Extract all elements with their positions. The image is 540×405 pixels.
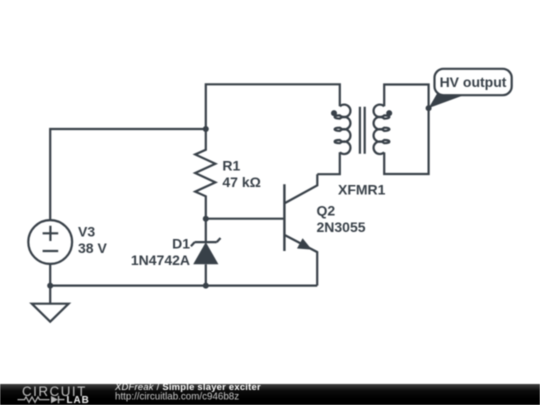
resistor R1 <box>195 129 215 219</box>
svg-text:HV output: HV output <box>440 74 507 90</box>
node: zener bottom junction <box>203 283 209 289</box>
transformer XFMR1 core <box>360 107 365 154</box>
svg-text:R1: R1 <box>222 157 240 173</box>
svg-text:Q2: Q2 <box>317 202 336 218</box>
footer credit text <box>114 381 261 403</box>
svg-text:http://circuitlab.com/c946b8z: http://circuitlab.com/c946b8z <box>115 392 239 403</box>
transformer XFMR1 primary winding <box>335 105 351 154</box>
svg-text:D1: D1 <box>172 236 190 252</box>
svg-text:V3: V3 <box>78 224 95 240</box>
wire: vertical riser and top rail to transformer primary <box>206 84 340 129</box>
logo CircuitLab <box>18 384 90 405</box>
svg-text:2N3055: 2N3055 <box>317 219 366 235</box>
ground <box>32 286 69 322</box>
transformer XFMR1 phase dot primary <box>331 110 337 116</box>
svg-text:XFMR1: XFMR1 <box>338 182 386 198</box>
zener diode D1 <box>191 219 221 286</box>
wire: left rail from V3 top to top-left corner <box>50 129 205 220</box>
node: HV output tap <box>426 105 432 111</box>
svg-text:XDFreak / Simple slayer excite: XDFreak / Simple slayer exciter <box>114 381 261 392</box>
voltage source V3 <box>28 220 72 286</box>
wire: base wire to Q2 <box>206 218 284 220</box>
callout HV output <box>429 69 512 108</box>
node: junction R1 top <box>203 126 209 132</box>
svg-text:38 V: 38 V <box>78 240 107 256</box>
transformer XFMR1 phase dot secondary <box>386 110 392 116</box>
svg-text:47 kΩ: 47 kΩ <box>222 174 260 190</box>
node: ground junction <box>47 283 53 289</box>
wire: bottom rail <box>50 285 317 287</box>
transistor Q2 <box>284 174 317 285</box>
node: base node junction <box>203 216 209 222</box>
wire: secondary loop <box>384 85 428 175</box>
transformer XFMR1 secondary winding <box>374 105 390 154</box>
svg-text:LAB: LAB <box>67 395 90 405</box>
wire: collector to transformer primary bottom <box>317 152 340 174</box>
svg-text:1N4742A: 1N4742A <box>131 252 190 268</box>
footer bar <box>0 384 540 405</box>
